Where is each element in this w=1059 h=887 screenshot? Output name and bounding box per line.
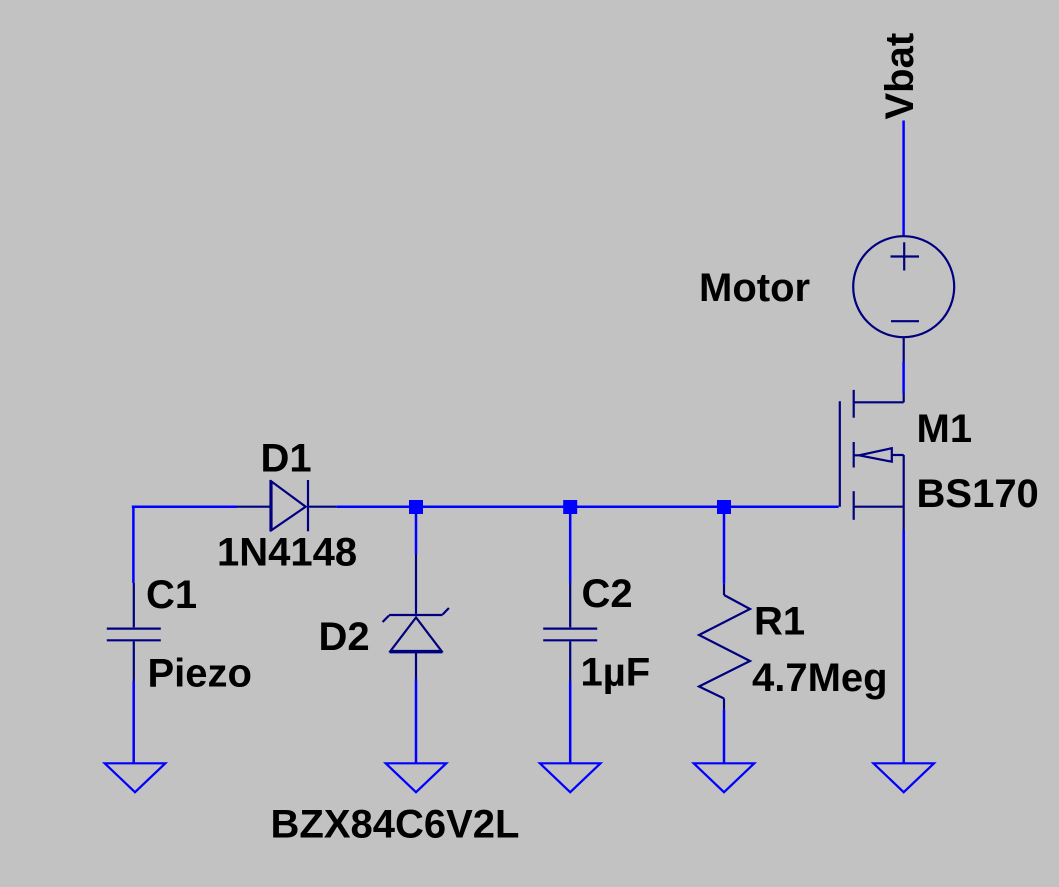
svg-text:R1: R1 — [754, 600, 805, 644]
svg-text:1N4148: 1N4148 — [217, 531, 357, 575]
svg-text:Piezo: Piezo — [148, 652, 252, 696]
svg-text:D1: D1 — [261, 437, 312, 481]
svg-text:BS170: BS170 — [917, 472, 1039, 516]
svg-text:C2: C2 — [582, 572, 633, 616]
svg-text:BZX84C6V2L: BZX84C6V2L — [271, 803, 520, 847]
svg-text:C1: C1 — [146, 573, 197, 617]
svg-text:M1: M1 — [917, 407, 973, 451]
svg-text:4.7Meg: 4.7Meg — [752, 656, 888, 700]
svg-text:1µF: 1µF — [581, 651, 651, 695]
svg-text:D2: D2 — [319, 615, 370, 659]
svg-text:Vbat: Vbat — [878, 33, 922, 120]
svg-text:Motor: Motor — [699, 266, 810, 310]
